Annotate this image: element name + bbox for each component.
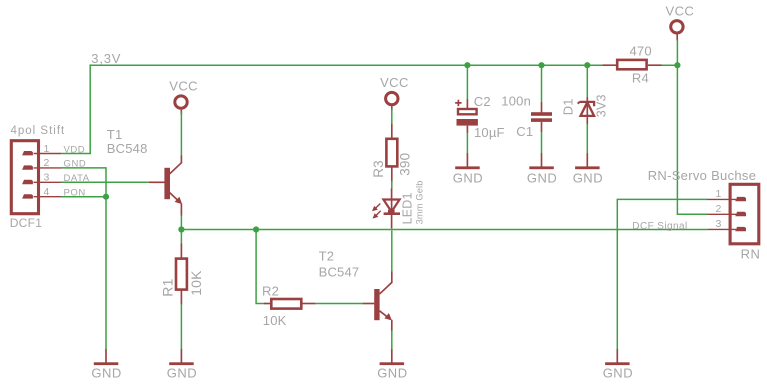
- svg-text:VDD: VDD: [64, 144, 86, 155]
- pin 3 DATA: [22, 172, 90, 185]
- resistor R3 390: [371, 124, 413, 182]
- resistor R1 10K: [159, 244, 204, 305]
- emitter arrow: [384, 313, 392, 320]
- emitter diagonal: [380, 311, 391, 320]
- ground GND under DCF1 PON: [91, 349, 121, 380]
- wire junction down to GND symbol: [105, 197, 107, 350]
- svg-text:RN-Servo Buchse: RN-Servo Buchse: [648, 168, 757, 183]
- cathode bar with hooks: [579, 102, 594, 106]
- svg-text:VCC: VCC: [380, 75, 409, 90]
- svg-text:C1: C1: [516, 124, 533, 139]
- base pin: [149, 181, 165, 183]
- collector diagonal: [170, 162, 182, 174]
- connector DCF1 4pol Stift: [10, 125, 90, 230]
- junction rail at D1: [584, 62, 590, 68]
- resistor R4 470: [603, 44, 663, 86]
- wire GND pin horizontal: [61, 168, 106, 197]
- LED LED1 3mm Gelb: [372, 180, 425, 228]
- emitter pin vertical: [180, 204, 182, 216]
- base bar: [374, 289, 379, 320]
- resistor R2 10K: [262, 283, 316, 328]
- ground GND under T2: [377, 349, 407, 380]
- svg-text:R3: R3: [371, 160, 386, 178]
- power VCC at R3: [380, 75, 409, 111]
- svg-text:10µF: 10µF: [474, 125, 505, 140]
- svg-text:C2: C2: [474, 94, 491, 109]
- ground GND under C2: [453, 153, 483, 185]
- pin 2: [707, 203, 746, 216]
- wire R1 to GND: [180, 304, 182, 350]
- pin 3: [707, 218, 746, 231]
- collector pin vertical: [180, 155, 182, 163]
- wire D1 to GND: [586, 124, 588, 154]
- svg-text:GND: GND: [573, 170, 603, 185]
- emitter diagonal: [170, 193, 181, 203]
- svg-text:BC548: BC548: [107, 141, 148, 156]
- ground GND under C1: [527, 153, 557, 185]
- collector pin vertical: [391, 272, 393, 283]
- svg-text:4pol Stift: 4pol Stift: [11, 125, 66, 137]
- connector body: [11, 141, 38, 214]
- pin 2 GND: [22, 157, 86, 170]
- wire T2 emitter to GND: [391, 330, 393, 350]
- wire VCC to R3: [391, 109, 393, 125]
- zener diode D1 3V3: [561, 94, 609, 124]
- svg-text:VCC: VCC: [666, 3, 695, 18]
- power VCC at T1: [169, 79, 198, 115]
- connector RN RN-Servo Buchse: [648, 168, 761, 261]
- svg-text:BC547: BC547: [319, 264, 360, 279]
- base bar: [164, 168, 170, 199]
- emission arrow 1: [375, 204, 380, 209]
- svg-text:GND: GND: [453, 170, 483, 185]
- wire RN pin 1 to GND drop: [617, 199, 707, 349]
- wire DATA pin to T1 base: [61, 181, 149, 183]
- wire rail to C1: [541, 65, 543, 103]
- junction T1 emitter / R1 / signal wire: [178, 226, 184, 232]
- plus sign: [455, 100, 461, 106]
- svg-text:GND: GND: [527, 170, 557, 185]
- wire T1 emitter to junction: [180, 215, 182, 229]
- svg-text:4: 4: [44, 186, 50, 198]
- svg-text:DCF Signal: DCF Signal: [632, 221, 687, 232]
- top plate outline: [458, 109, 477, 114]
- svg-text:R2: R2: [262, 283, 279, 298]
- wire 3,3V rail horizontal: [90, 64, 603, 66]
- svg-text:470: 470: [630, 44, 652, 59]
- svg-text:3: 3: [716, 218, 722, 230]
- svg-text:GND: GND: [603, 365, 633, 380]
- pin 4 PON: [22, 186, 86, 199]
- collector diagonal: [380, 282, 393, 294]
- svg-text:VCC: VCC: [169, 79, 198, 94]
- wire R4 to VCC junction: [661, 64, 677, 66]
- wire C2 to GND: [466, 132, 468, 154]
- wire VCC symbol to junction: [676, 40, 678, 66]
- svg-text:3V3: 3V3: [595, 94, 609, 117]
- svg-text:1: 1: [716, 188, 722, 200]
- wire VDD pin to rail: [61, 153, 91, 155]
- wire junction down to R1: [180, 230, 182, 245]
- svg-text:T1: T1: [107, 127, 123, 142]
- svg-text:2: 2: [44, 157, 50, 169]
- wire 3,3V rail vertical drop to VDD pin: [89, 64, 91, 153]
- wire LED1 to T2 collector: [391, 230, 393, 272]
- pin 1 VDD: [22, 143, 85, 156]
- wire R3 to LED1: [391, 181, 393, 190]
- svg-text:10K: 10K: [263, 313, 287, 328]
- wire DCF signal horizontal: [181, 229, 707, 231]
- svg-text:3: 3: [44, 172, 50, 184]
- svg-text:R4: R4: [632, 71, 649, 86]
- ground GND under R1: [167, 349, 197, 380]
- svg-text:DATA: DATA: [64, 173, 90, 184]
- svg-text:GND: GND: [91, 365, 121, 380]
- junction R2 branch: [253, 226, 259, 232]
- ground GND bottom right: [603, 349, 633, 380]
- wire R2 to T2 base: [315, 303, 364, 305]
- wire VCC to T1 collector: [180, 112, 182, 156]
- svg-text:PON: PON: [64, 188, 86, 199]
- capacitor C1 100n: [501, 94, 552, 140]
- transistor T1 BC548: [107, 127, 182, 216]
- ground GND under D1: [573, 153, 603, 185]
- wire rail to C2: [466, 65, 468, 100]
- wire VCC junction down to RN pin 2: [677, 65, 707, 214]
- svg-text:R1: R1: [159, 278, 175, 296]
- wire junction down to R2: [256, 230, 265, 304]
- svg-text:100n: 100n: [501, 94, 531, 109]
- svg-text:2: 2: [716, 203, 722, 215]
- svg-text:LED1: LED1: [401, 192, 415, 224]
- svg-text:3,3V: 3,3V: [91, 51, 121, 66]
- svg-text:DCF1: DCF1: [10, 216, 43, 230]
- base pin: [363, 303, 375, 305]
- svg-text:D1: D1: [561, 98, 576, 115]
- svg-text:10K: 10K: [188, 270, 204, 296]
- wire rail to D1: [586, 65, 588, 98]
- wire C1 to GND: [541, 132, 543, 155]
- bottom plate filled: [457, 119, 478, 126]
- capacitor C2 10uF polarized: [455, 94, 505, 140]
- anode triangle: [581, 102, 595, 116]
- emission arrow 2: [375, 211, 380, 216]
- svg-text:RN: RN: [741, 246, 761, 261]
- pin 1: [707, 188, 746, 201]
- connector body: [730, 184, 759, 244]
- svg-text:GND: GND: [64, 159, 87, 170]
- emitter pin vertical: [391, 320, 393, 331]
- svg-text:1: 1: [44, 143, 50, 155]
- junction rail at C1: [538, 62, 544, 68]
- svg-text:GND: GND: [167, 365, 197, 380]
- junction VCC net: [674, 62, 680, 68]
- power VCC top right: [666, 3, 695, 40]
- junction rail at C2: [464, 62, 470, 68]
- svg-text:3mm Gelb: 3mm Gelb: [415, 180, 425, 224]
- emitter arrow: [175, 197, 183, 205]
- junction at PON/GND: [103, 194, 109, 200]
- svg-text:390: 390: [397, 153, 412, 176]
- wire PON pin to junction: [61, 196, 106, 198]
- svg-text:GND: GND: [377, 365, 407, 380]
- svg-text:T2: T2: [319, 248, 335, 263]
- transistor T2 BC547: [319, 248, 393, 331]
